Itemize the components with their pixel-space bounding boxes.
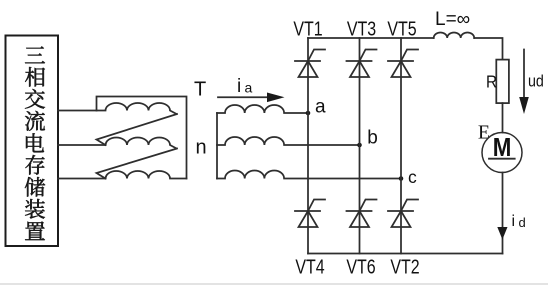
wire: delta link W2-W3 <box>97 149 178 179</box>
svg-text:a: a <box>315 96 326 117</box>
wire: bridge leg phase a (VT1/VT4) <box>307 38 309 254</box>
wire: motor to negative bus <box>502 173 504 254</box>
svg-text:i: i <box>237 76 241 97</box>
svg-text:VT3: VT3 <box>347 18 376 40</box>
thyristor VT2 <box>388 200 418 228</box>
transformer T primary winding W3 (delta) <box>106 171 187 178</box>
svg-text:n: n <box>196 137 207 159</box>
node n: secondary star bus <box>216 113 218 179</box>
svg-text:c: c <box>408 167 417 187</box>
wire: box to primary phase 3 <box>58 178 106 180</box>
wire: R to motor <box>502 103 504 132</box>
source box label 三相交流电存储装置 (vertical) <box>25 46 45 240</box>
svg-text:VT4: VT4 <box>295 256 324 278</box>
thyristor VT5 <box>388 50 418 78</box>
transformer T secondary winding a <box>217 105 308 113</box>
node c junction dot <box>399 176 404 181</box>
svg-text:i: i <box>512 213 516 230</box>
image bottom edge artifact <box>0 283 548 285</box>
transformer T primary winding W2 (delta) <box>106 138 177 149</box>
svg-text:b: b <box>367 127 378 148</box>
thyristor VT4 <box>295 200 325 228</box>
svg-text:VT6: VT6 <box>346 256 375 278</box>
svg-text:VT1: VT1 <box>293 18 322 40</box>
wire: positive DC bus <box>308 37 434 39</box>
svg-text:E: E <box>478 122 490 144</box>
current arrow id <box>497 227 507 240</box>
wire: bus after inductor to right rail <box>474 38 502 60</box>
svg-text:VT5: VT5 <box>387 18 416 40</box>
thyristor VT1 <box>295 50 325 78</box>
wire: box to primary phase 1 <box>58 110 97 112</box>
thyristor VT6 <box>347 200 377 228</box>
wire: box to primary phase 2 <box>58 144 106 146</box>
source box: three-phase AC supply device <box>6 36 59 247</box>
svg-text:a: a <box>245 80 253 96</box>
inductor L <box>434 33 475 39</box>
svg-text:T: T <box>194 79 206 101</box>
thyristor VT3 <box>347 50 377 78</box>
motor M <box>482 133 522 173</box>
transformer T secondary winding b <box>217 137 360 145</box>
resistor R <box>496 60 509 104</box>
wire: bridge leg phase b (VT3/VT6) <box>359 38 361 254</box>
wire: delta link W1-W2 <box>97 114 178 145</box>
svg-text:VT2: VT2 <box>390 256 419 278</box>
current arrow ia <box>218 96 270 98</box>
transformer T secondary winding c <box>217 171 401 179</box>
svg-text:L=∞: L=∞ <box>435 9 470 30</box>
wire: negative DC bus <box>308 253 503 255</box>
voltage arrow ud <box>523 50 525 101</box>
node b junction dot <box>357 143 362 148</box>
transformer T primary winding W1 (delta) <box>97 97 187 179</box>
svg-text:d: d <box>519 215 526 230</box>
wire: bridge leg phase c (VT5/VT2) <box>400 38 402 254</box>
svg-text:ud: ud <box>528 72 544 90</box>
node a junction dot <box>306 111 311 116</box>
svg-text:R: R <box>486 71 497 91</box>
